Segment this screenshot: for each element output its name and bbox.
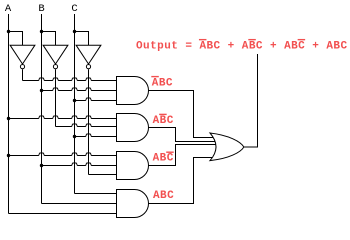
wire NOT-B output vertical [55,69,57,126]
junction A AND3 [7,154,10,157]
wire NOT-A to AND1 input 1 [23,78,119,81]
AND gate AND4 (ABC) [117,190,149,218]
junction A AND2 [7,117,10,120]
wire C to AND4 input 1 [75,193,119,195]
junction C AND2 [73,135,76,138]
wire AND1 output to OR input 1 [149,91,217,138]
OR gate U5 [210,133,244,161]
wire AND3 output to OR input 3 [149,145,217,166]
svg-text:ABC: ABC [152,78,173,90]
wire B to AND4 input 2 [42,203,119,205]
wire AND4 output to OR input 4 [149,158,217,204]
label AND2 (AB'C) product term [153,114,174,127]
wire NOT-C output vertical [88,69,90,174]
junction C branch [73,30,76,33]
wire input B vertical [41,14,43,204]
junction B AND3 [40,164,43,167]
wire B to AND1 input 2 [42,88,119,91]
wire NOT-C to AND3 input 3 [89,174,119,176]
wire NOT-B to AND2 input 2 [56,124,119,127]
junction B AND1 [40,89,43,92]
wire NOT-A output vertical [22,69,24,80]
svg-text:ABC: ABC [153,153,174,165]
AND gate AND1 (A'BC) [117,77,149,105]
Output formula text [136,39,348,52]
wire A to AND2 input 1 [9,116,119,119]
label AND1 (A'BC) product term [151,76,173,90]
svg-text:Output = ABC + ABC + ABC + ABC: Output = ABC + ABC + ABC + ABC [136,40,348,52]
wire OR output to Output node [244,54,258,147]
svg-text:B: B [38,3,44,15]
wire A to AND3 input 1 [9,153,119,156]
AND gate AND3 (ABC') [117,152,149,180]
wire C to AND1 input 3 [75,98,119,101]
wire B branch to inverter [42,32,56,46]
junction A branch [7,30,10,33]
wire input C vertical [74,14,76,194]
label AND4 (ABC) product term [153,190,174,202]
svg-text:C: C [71,3,77,15]
wire input A vertical [8,14,10,214]
inverter NOT-A [10,45,35,68]
inverter NOT-C [76,45,101,68]
AND gate AND2 (AB'C) [117,114,149,142]
wire C branch to inverter [75,32,89,46]
wire C to AND2 input 3 [75,134,119,137]
wire B to AND3 input 2 [42,163,119,166]
svg-text:ABC: ABC [153,115,174,127]
wire AND2 output to OR input 2 [149,128,217,142]
junction C AND1 [73,99,76,102]
label AND3 (ABC') product term [153,152,174,165]
junction B branch [40,30,43,33]
inverter NOT-B [43,45,68,68]
svg-text:ABC: ABC [153,190,174,202]
wire A branch to inverter [9,32,23,46]
wire A to AND4 input 3 [9,213,119,215]
svg-text:A: A [5,3,12,15]
